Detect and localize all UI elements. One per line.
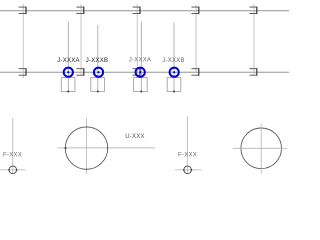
wire: grid vertical C — [136, 4, 138, 77]
column symbol top A — [19, 7, 26, 14]
node: unit right edge — [107, 147, 108, 148]
box 4 — [167, 78, 181, 92]
column symbol mid E — [249, 69, 256, 76]
wire: drop 3 — [140, 22, 142, 92]
fixture 2 circle — [184, 166, 192, 174]
column symbol mid D — [191, 69, 198, 76]
column symbol mid C — [133, 69, 140, 76]
svg-text:J-XXXA: J-XXXA — [57, 58, 80, 64]
wire: drop 1 — [67, 22, 69, 92]
node: unit left edge — [65, 147, 67, 149]
svg-text:F-XXX: F-XXX — [178, 152, 197, 158]
svg-text:J-XXXB: J-XXXB — [162, 58, 185, 64]
wire: unit 2 vertical centerline — [260, 124, 262, 174]
wire: grid vertical E — [253, 4, 255, 75]
column symbol top B — [76, 7, 83, 14]
wire: drop 2 — [97, 25, 99, 91]
wire: unit vertical centerline — [85, 118, 87, 174]
wire: fixture 1 horizontal — [0, 169, 25, 171]
node: box 3 bottom dot — [140, 91, 142, 93]
svg-text:J-XXXA: J-XXXA — [129, 58, 152, 64]
wire: unit 2 horizontal centerline — [233, 147, 288, 149]
svg-text:U-XXX: U-XXX — [125, 134, 145, 140]
junction box J-XXXA circle — [64, 68, 73, 77]
column symbol top C — [133, 7, 140, 14]
node: unit top edge — [86, 126, 87, 127]
column symbol top D — [191, 7, 198, 14]
box 2 — [91, 78, 105, 92]
column symbol mid B — [76, 69, 83, 76]
unit circle 2 — [241, 128, 282, 169]
junction box J-XXXB circle — [94, 68, 103, 77]
wire: grid vertical D — [195, 5, 197, 73]
column symbol top E — [249, 7, 256, 14]
box 1 — [61, 78, 75, 92]
node: box 2 bottom dot — [97, 91, 99, 93]
svg-text:F-XXX: F-XXX — [3, 152, 22, 158]
fixture 1 circle — [9, 166, 17, 174]
wire: unit horizontal centerline — [58, 147, 156, 149]
wire: drop 4 — [173, 22, 175, 91]
node: box 4 bottom dot — [173, 91, 175, 93]
fixture F-XXX 2: riser wire — [186, 116, 188, 174]
wire: middle grid line — [0, 71, 289, 73]
unit U-XXX circle — [65, 127, 107, 169]
junction box 4 circle — [170, 68, 179, 77]
wire: fixture 2 horizontal — [175, 169, 202, 171]
box 3 — [134, 78, 148, 92]
column symbol mid A — [19, 69, 26, 76]
node: box 1 bottom dot — [67, 91, 69, 93]
svg-text:J-XXXB: J-XXXB — [86, 58, 109, 64]
fixture F-XXX 1: riser wire — [12, 118, 14, 174]
wire: top grid line — [0, 10, 289, 12]
node: unit bottom edge — [86, 169, 87, 170]
wire: grid vertical B — [80, 4, 82, 75]
junction box 3 circle — [136, 68, 145, 77]
wire: grid vertical A — [22, 4, 24, 78]
